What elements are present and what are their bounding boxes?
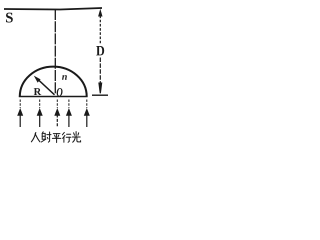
incident ray arrow 4 <box>66 100 72 128</box>
caption glyph 射 (she) <box>41 132 51 142</box>
surface level tick <box>92 94 108 96</box>
semicircular block arc <box>20 67 87 97</box>
central axis wire <box>54 9 56 94</box>
dimension up arrowhead <box>98 9 102 17</box>
flat face of block <box>19 96 88 98</box>
label S <box>6 13 13 23</box>
dimension down arrowhead <box>98 83 102 94</box>
label n <box>62 75 67 80</box>
incident ray arrow 5 <box>84 100 90 128</box>
caption glyph 平 (ping) <box>52 134 60 143</box>
label R <box>34 88 42 95</box>
incident ray arrow 1 <box>17 100 23 128</box>
incident ray arrow 2 <box>37 100 43 128</box>
label O <box>57 88 63 96</box>
screen line S <box>4 8 102 10</box>
dimension line D lower segment <box>99 58 101 84</box>
incident ray arrow 3 <box>54 100 60 128</box>
label D <box>96 46 104 55</box>
caption glyph 行 (xing) <box>62 132 71 142</box>
caption glyph 入 (ru) <box>31 133 40 142</box>
caption glyph 光 (guang) <box>72 132 80 143</box>
radius arrow R <box>34 76 55 95</box>
dimension line D upper dashed segment <box>99 16 101 44</box>
